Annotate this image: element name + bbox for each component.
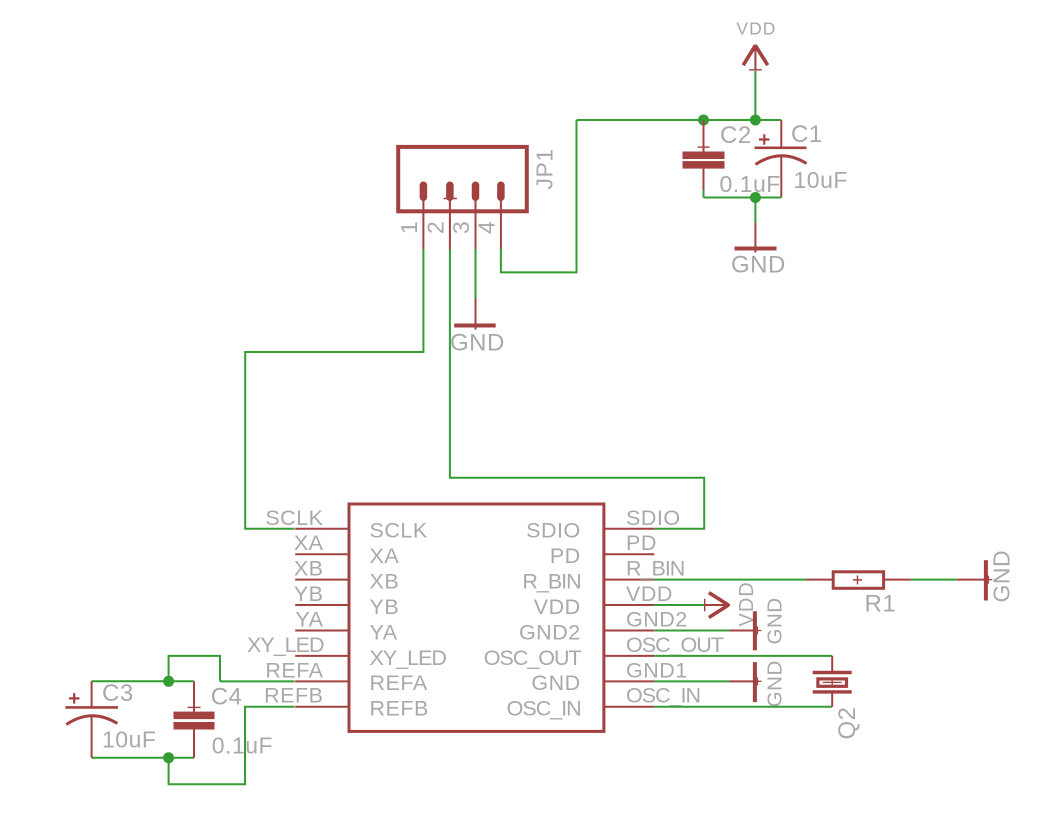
IC pin GND1 (right): [604, 680, 654, 682]
IC pin XA (left): [295, 553, 349, 555]
svg-text:YA: YA: [295, 607, 323, 631]
svg-text:GND: GND: [450, 330, 505, 357]
svg-text:PD: PD: [550, 544, 581, 568]
svg-text:SDIO: SDIO: [526, 519, 581, 543]
origin cross GND2 symbol: [753, 626, 761, 634]
ground symbol GND (right of R1): [957, 560, 986, 600]
IC pin YA (left): [295, 629, 349, 631]
svg-text:C1: C1: [791, 121, 823, 148]
capacitor C4: [174, 681, 215, 758]
wire JP1 pin1 to SCLK net: [245, 249, 423, 529]
origin cross GND right: [984, 576, 992, 584]
JP1 pin pad 4: [497, 182, 505, 202]
svg-text:3: 3: [448, 221, 474, 234]
wire REFA net to bump: [220, 680, 295, 682]
wire VDD net at IC right: [654, 604, 704, 606]
IC AD9850 box: [349, 504, 604, 731]
IC pin SCLK (left): [295, 528, 349, 530]
svg-text:2: 2: [423, 221, 449, 234]
wire JP1 pin3 to GND: [475, 249, 477, 299]
capacitor C1 (polarized): [755, 120, 807, 198]
wire C3 to C4 top: [92, 680, 194, 682]
junction REFA net at C3 C4 top: [163, 676, 174, 687]
svg-text:GND: GND: [764, 660, 787, 707]
IC pin REFB (left): [295, 706, 349, 708]
svg-text:R_BIN: R_BIN: [626, 557, 684, 581]
JP1 pin lead 2: [449, 199, 451, 249]
crystal Q2: [813, 656, 852, 707]
svg-text:GND2: GND2: [626, 607, 688, 631]
capacitor C2: [683, 120, 725, 193]
svg-text:XB: XB: [294, 557, 324, 581]
wire GND net vertical to GND symbol: [754, 198, 756, 224]
svg-text:REFB: REFB: [370, 697, 429, 721]
svg-text:10uF: 10uF: [102, 727, 156, 753]
svg-text:SDIO: SDIO: [626, 506, 681, 530]
svg-text:10uF: 10uF: [794, 167, 848, 193]
junction GND net below capacitors: [750, 192, 761, 203]
svg-text:R1: R1: [865, 591, 897, 618]
svg-text:XY_LED: XY_LED: [370, 646, 447, 670]
svg-text:SCLK: SCLK: [265, 506, 323, 530]
svg-text:PD: PD: [626, 531, 657, 555]
svg-text:SCLK: SCLK: [370, 519, 428, 543]
wire VDD net horizontal top: [577, 119, 782, 121]
svg-text:4: 4: [474, 221, 500, 234]
svg-text:YB: YB: [294, 582, 324, 606]
junction REFB net at C3 C4 bottom: [163, 752, 174, 763]
origin cross R1: [853, 575, 862, 584]
power symbol VDD (right, rotated): [705, 593, 730, 618]
wire REFB net route below C4: [169, 707, 295, 785]
svg-text:VDD: VDD: [534, 595, 581, 619]
origin cross Q2: [823, 679, 842, 686]
wire REFA net bump over C4: [169, 656, 220, 681]
svg-text:Q2: Q2: [834, 706, 861, 739]
svg-text:YA: YA: [370, 620, 398, 644]
wire R_BIN net to GND: [911, 579, 957, 581]
junction VDD net at VDD symbol: [750, 115, 761, 126]
ground symbol GND (GND2 pin): [729, 611, 755, 650]
svg-text:OSC_IN: OSC_IN: [507, 697, 581, 721]
wire VDD net vertical from VDD symbol: [754, 71, 756, 120]
wire JP1 pin4 to VDD net: [501, 120, 577, 272]
IC pin R_BIN (right): [604, 579, 654, 581]
svg-text:OSC_OUT: OSC_OUT: [626, 633, 724, 657]
svg-text:GND: GND: [989, 550, 1015, 603]
IC pin PD (right): [604, 553, 654, 555]
wire GND net below C2 C1: [704, 197, 782, 199]
svg-text:1: 1: [396, 221, 422, 234]
svg-text:GND1: GND1: [626, 658, 688, 682]
wire GND1 net: [654, 680, 729, 682]
svg-text:C3: C3: [102, 680, 134, 707]
wire C3 to C4 bottom: [92, 757, 194, 759]
R1 left lead: [806, 579, 833, 581]
svg-text:YB: YB: [370, 595, 400, 619]
IC pin OSC_IN (right): [604, 706, 654, 708]
svg-text:XY_LED: XY_LED: [247, 633, 324, 657]
svg-text:JP1: JP1: [532, 148, 558, 189]
ground symbol GND (GND1 pin): [729, 662, 755, 702]
svg-text:XA: XA: [370, 544, 400, 568]
IC pin YB (left): [295, 604, 349, 606]
wire OSC_IN net: [654, 706, 832, 708]
JP1 pin lead 1: [422, 199, 424, 249]
origin cross GND1 symbol: [753, 677, 761, 685]
wire GND2 net: [654, 629, 729, 631]
resistor R1: [833, 572, 883, 589]
connector JP1: [398, 147, 527, 211]
svg-text:R_BIN: R_BIN: [522, 570, 580, 594]
junction VDD net at C2: [698, 115, 709, 126]
wire R_BIN net to R1: [654, 579, 806, 581]
svg-text:GND: GND: [731, 252, 786, 279]
wire stub C2 bottom: [703, 190, 705, 198]
wire JP1 pin2 to SDIO net: [450, 249, 704, 529]
origin cross JP1: [444, 195, 457, 203]
wire OSC_OUT net: [654, 655, 832, 657]
capacitor C3 (polarized): [65, 681, 118, 758]
IC pin XB (left): [295, 579, 349, 581]
IC pin GND2 (right): [604, 629, 654, 631]
svg-text:REFA: REFA: [265, 658, 323, 682]
svg-text:OSC_OUT: OSC_OUT: [484, 646, 582, 670]
svg-text:VDD: VDD: [626, 582, 673, 606]
svg-text:0.1uF: 0.1uF: [212, 733, 273, 759]
svg-text:REFA: REFA: [370, 671, 428, 695]
ground symbol GND (below JP1): [454, 299, 496, 330]
svg-text:XB: XB: [370, 570, 400, 594]
power symbol VDD (top): [743, 46, 768, 66]
svg-text:C2: C2: [720, 122, 752, 149]
IC pin XY_LED (left): [295, 655, 349, 657]
JP1 pin pad 2: [446, 182, 454, 202]
JP1 pin lead 3: [475, 199, 477, 249]
R1 right lead: [885, 579, 911, 581]
svg-text:GND2: GND2: [519, 620, 581, 644]
svg-text:GND: GND: [531, 671, 580, 695]
IC pin VDD (right): [604, 604, 654, 606]
JP1 pin pad 1: [420, 182, 428, 202]
IC pin REFA (left): [295, 680, 349, 682]
svg-text:XA: XA: [294, 531, 324, 555]
JP1 pin lead 4: [500, 199, 502, 249]
ground symbol GND (top right): [735, 223, 777, 252]
IC pin SDIO (right): [604, 528, 654, 530]
svg-text:OSC_IN: OSC_IN: [626, 684, 700, 708]
IC pin OSC_OUT (right): [604, 655, 654, 657]
svg-text:VDD: VDD: [736, 19, 776, 39]
JP1 pin pad 3: [472, 182, 480, 202]
svg-text:C4: C4: [211, 684, 243, 711]
svg-text:GND: GND: [764, 597, 787, 644]
svg-text:0.1uF: 0.1uF: [720, 171, 781, 197]
svg-text:REFB: REFB: [264, 684, 323, 708]
